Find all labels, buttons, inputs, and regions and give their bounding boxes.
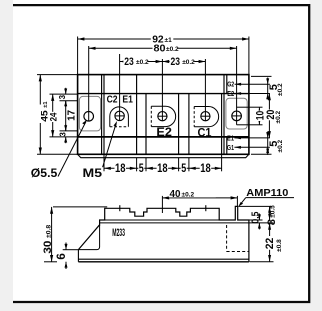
dimension 24 (left)	[48, 94, 77, 137]
svg-text:18: 18	[115, 163, 126, 175]
svg-text:C1: C1	[198, 128, 213, 140]
dimension 20±0.2 (right)	[265, 94, 282, 138]
dimension 0.5 (rim step)	[251, 211, 262, 229]
dimension 3 (top left)	[58, 88, 77, 107]
right extension module top	[251, 75, 272, 77]
svg-text:±0.2: ±0.2	[182, 192, 195, 199]
deck bottom line	[78, 136, 249, 138]
dimension 17 (left)	[66, 101, 78, 131]
screw slot tick bump1	[119, 205, 121, 211]
svg-text:E2: E2	[227, 89, 234, 98]
dimension 23±0.2 (second)	[162, 56, 205, 68]
svg-text:18: 18	[157, 163, 168, 175]
dimension 5±0.2 (top right)	[266, 78, 284, 100]
extension baseplate bottom right	[250, 261, 274, 263]
svg-text:±0.5: ±0.5	[270, 205, 277, 218]
side view silhouette	[78, 206, 249, 261]
svg-text:23: 23	[124, 56, 134, 68]
dimension 3 (bottom left)	[58, 125, 77, 144]
extension line E2 screw center	[161, 59, 163, 121]
section box C2E1 sides	[104, 75, 137, 155]
dimension 18 (second)	[146, 163, 179, 175]
svg-text:18: 18	[200, 163, 211, 175]
dimension 23±0.2 (first)	[120, 56, 163, 68]
extension tab top	[239, 205, 273, 207]
svg-text:80: 80	[154, 42, 166, 54]
dimension 18 (first)	[104, 163, 137, 175]
svg-text:24: 24	[48, 112, 59, 121]
svg-text:±0.2: ±0.2	[277, 140, 284, 153]
pin label G2 + leader	[227, 79, 270, 88]
svg-text:40: 40	[170, 188, 181, 200]
extension line C1 screw center	[204, 59, 206, 121]
svg-text:5: 5	[139, 163, 144, 175]
dimension 92±1	[78, 34, 249, 75]
extension line left hole center	[88, 46, 90, 121]
left mounting recess	[79, 96, 100, 130]
mounting hole left (Ø5.5)	[84, 112, 94, 122]
dimension 30±0.8 (side left)	[42, 207, 107, 262]
svg-text:10: 10	[254, 111, 266, 121]
dimension 5 (first)	[138, 163, 144, 175]
extension line C2E1 screw center	[119, 54, 121, 121]
dimension 10 (right slot)	[249, 107, 267, 125]
side view deck line	[100, 219, 236, 221]
svg-text:±0.2: ±0.2	[136, 59, 149, 66]
svg-text:M5: M5	[83, 166, 103, 180]
case inner corner left	[78, 226, 99, 250]
terminal boss E2 (D-shape)	[151, 106, 175, 126]
bottom dimension line 18-5-18-5-18	[104, 154, 222, 171]
section box E2 sides	[146, 94, 179, 155]
dimension 6 (baseplate)	[56, 243, 78, 270]
dimension 8±0.5 (tab height)	[266, 205, 278, 225]
svg-text:3: 3	[58, 132, 67, 137]
right mounting recess	[226, 98, 247, 129]
pin label E2 + leader	[227, 89, 270, 98]
svg-text:E1: E1	[122, 94, 133, 106]
svg-text:Ø5.5: Ø5.5	[31, 166, 58, 180]
svg-text:30: 30	[42, 241, 54, 254]
svg-text:±1: ±1	[165, 37, 173, 44]
deck top line	[78, 93, 249, 95]
svg-text:23: 23	[171, 56, 181, 68]
terminal boss C1 (D-shape)	[194, 107, 218, 127]
svg-text:0.5: 0.5	[251, 211, 262, 223]
pin label G1 + leader	[227, 143, 270, 152]
extension deck right	[250, 219, 263, 221]
right extension module bottom	[251, 153, 272, 155]
svg-text:±0.2: ±0.2	[277, 83, 284, 96]
svg-text:3: 3	[58, 94, 67, 99]
svg-text:E2: E2	[156, 127, 172, 139]
svg-text:22: 22	[264, 238, 276, 250]
dimension 80±0.2	[89, 42, 237, 54]
terminal screw E2	[158, 112, 167, 121]
dimension 45±1 (left)	[37, 75, 78, 155]
leader and label M5	[83, 121, 118, 180]
dimension 22±0.8 (right height)	[264, 223, 283, 262]
pin-box left edge	[226, 75, 228, 155]
extension rim right	[250, 222, 274, 224]
partition left section	[101, 75, 103, 155]
svg-text:6: 6	[56, 253, 68, 259]
side view baseplate	[78, 250, 249, 262]
pin label E1 + leader	[227, 133, 270, 142]
screw slot tick bump3	[205, 205, 207, 211]
svg-text:±1: ±1	[43, 101, 49, 108]
partition right section	[223, 75, 225, 155]
hidden cavity (dashed)	[227, 225, 249, 252]
dimension 5±0.2 (bottom right)	[266, 131, 284, 155]
svg-text:17: 17	[67, 109, 78, 121]
svg-text:5: 5	[181, 163, 186, 175]
terminal screw C2/E1 (M5)	[115, 111, 124, 120]
svg-text:C2: C2	[107, 94, 118, 106]
dimension 40±0.2 (side top)	[162, 188, 237, 213]
svg-text:G2: G2	[227, 79, 234, 88]
svg-text:E1: E1	[227, 133, 235, 142]
side view rim line	[100, 222, 249, 224]
svg-text:G1: G1	[227, 143, 235, 152]
leader and label Ø5.5	[31, 120, 87, 180]
dimension 5 (second)	[181, 163, 187, 175]
extension line right hole center	[236, 46, 238, 125]
svg-text:±0.2: ±0.2	[275, 111, 282, 124]
mounting slot right	[232, 107, 249, 125]
module bottom skirt (top view)	[78, 154, 249, 157]
svg-text:M233: M233	[112, 227, 125, 239]
svg-text:±0.8: ±0.8	[276, 239, 283, 252]
svg-text:±0.2: ±0.2	[166, 46, 179, 53]
section box C1 sides	[189, 94, 222, 155]
label AMP110 + leader	[238, 187, 294, 206]
terminal boss C2/E1 (arch)	[110, 107, 129, 127]
terminal screw C1	[201, 112, 210, 121]
svg-text:±0.2: ±0.2	[182, 59, 195, 66]
module body outline (top view)	[78, 75, 249, 155]
dimension 18 (third)	[189, 163, 222, 175]
svg-text:8: 8	[266, 219, 278, 225]
svg-text:±0.8: ±0.8	[45, 225, 52, 238]
